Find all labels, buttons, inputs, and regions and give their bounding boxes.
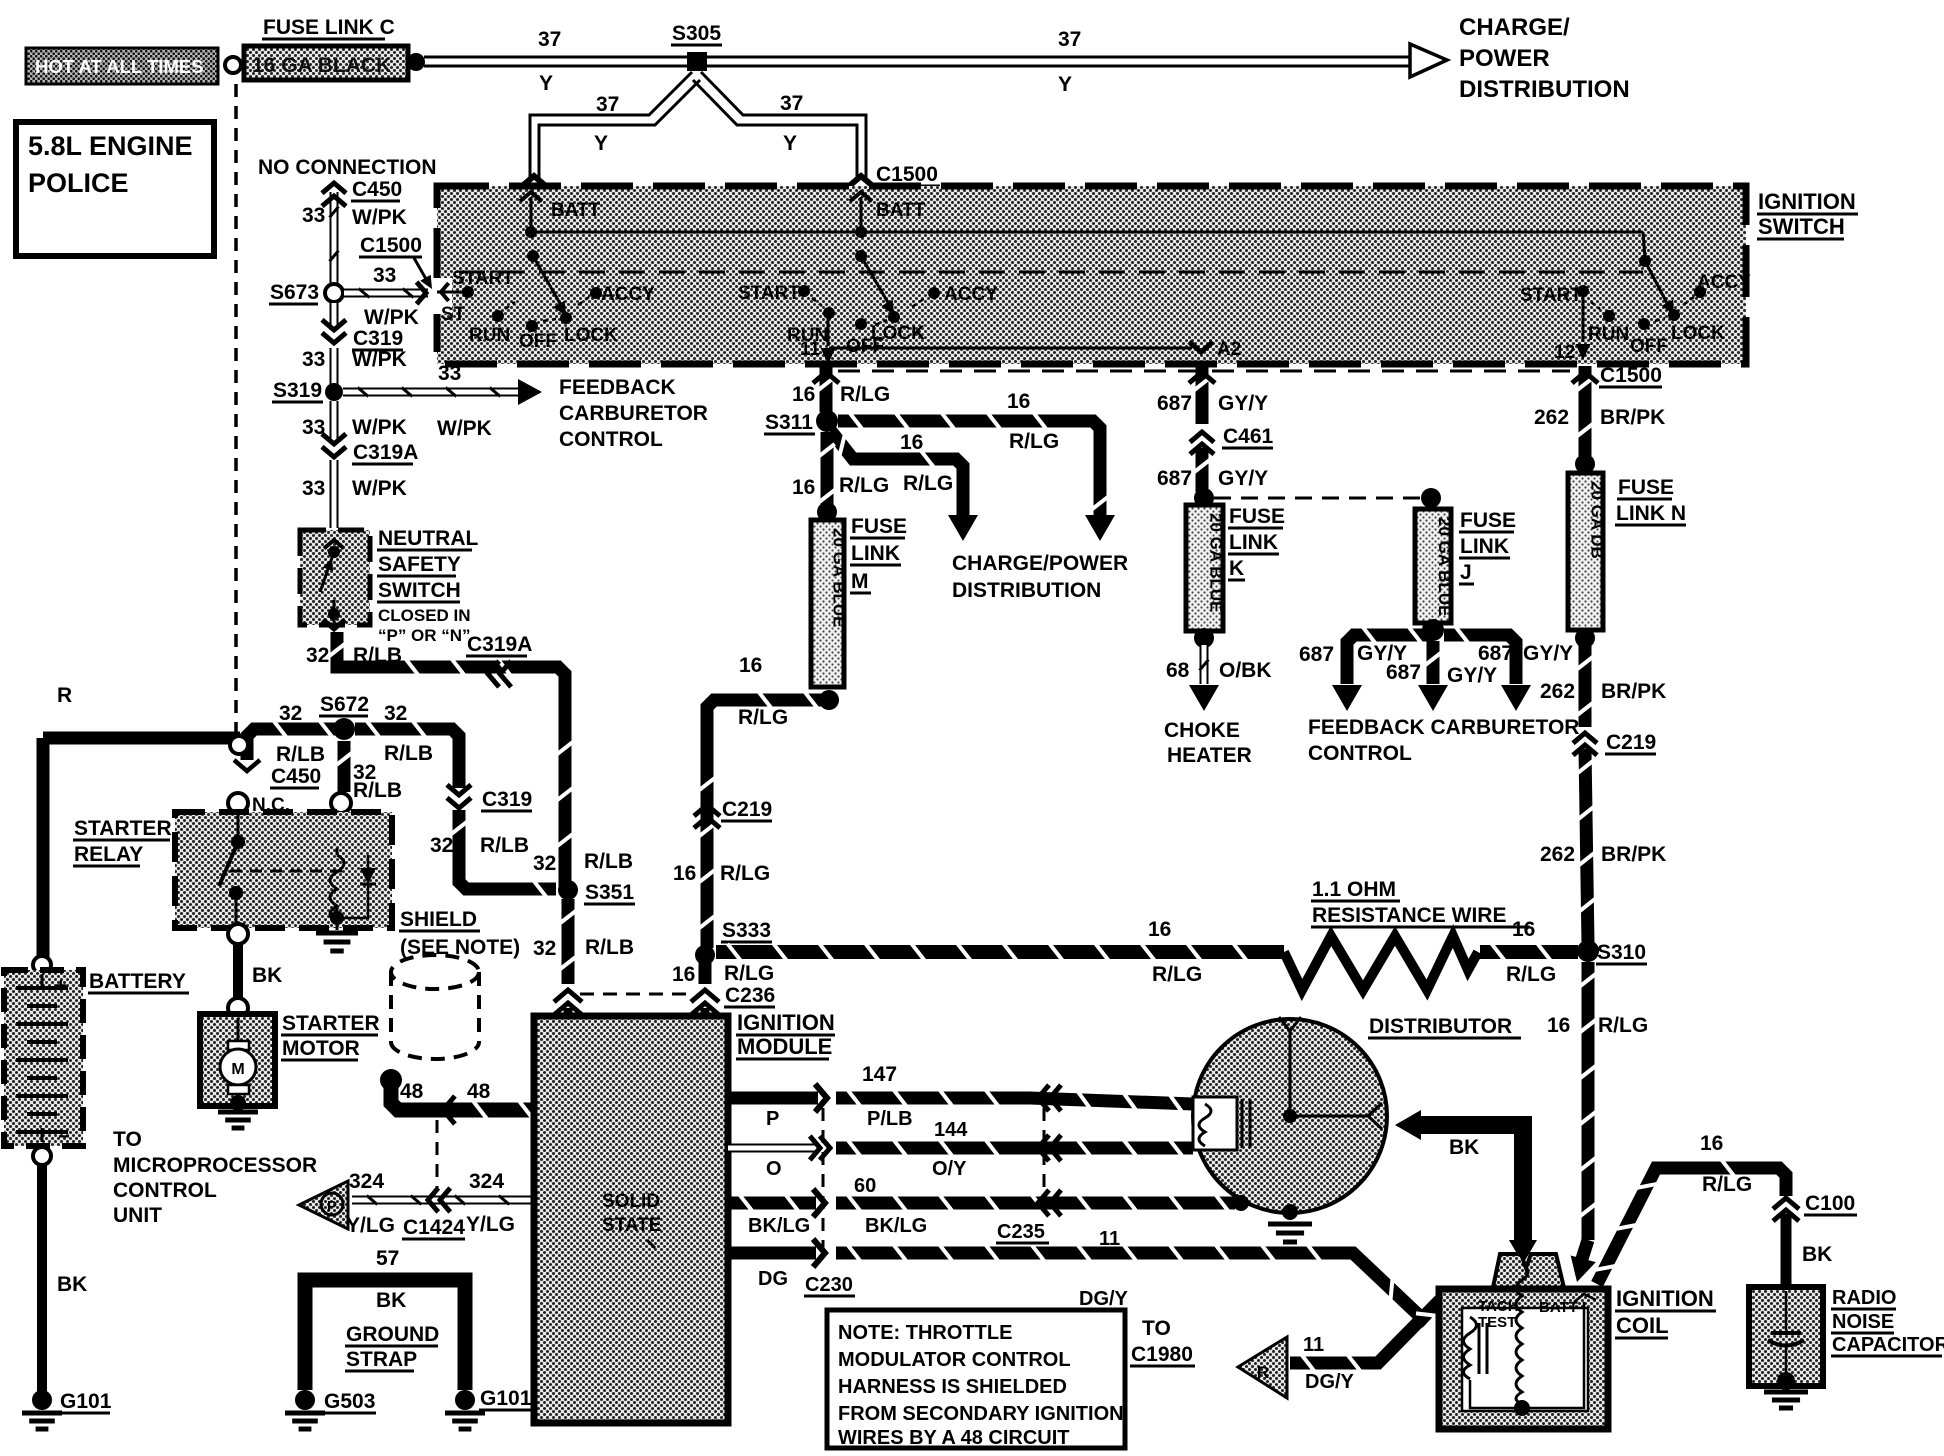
svg-text:12: 12 (1554, 342, 1575, 363)
svg-text:LOCK: LOCK (564, 325, 618, 346)
svg-text:W/PK: W/PK (352, 348, 407, 371)
svg-text:20 GA BLUE: 20 GA BLUE (830, 528, 849, 628)
svg-text:RUN: RUN (469, 325, 510, 346)
svg-text:16: 16 (1512, 918, 1535, 941)
svg-text:RESISTANCE WIRE: RESISTANCE WIRE (1312, 904, 1506, 927)
svg-text:R: R (57, 684, 72, 707)
svg-text:BK: BK (57, 1273, 87, 1296)
svg-text:C219: C219 (1606, 731, 1656, 754)
svg-text:SAFETY: SAFETY (378, 553, 461, 576)
svg-text:SWITCH: SWITCH (1758, 214, 1845, 239)
svg-text:FUSE: FUSE (851, 515, 907, 538)
svg-text:R/LG: R/LG (903, 472, 953, 495)
svg-text:R/LB: R/LB (384, 742, 433, 765)
svg-text:C450: C450 (352, 178, 402, 201)
svg-text:Y: Y (539, 72, 553, 95)
svg-text:GROUND: GROUND (346, 1323, 439, 1346)
svg-text:C461: C461 (1223, 425, 1274, 448)
svg-text:48: 48 (467, 1080, 491, 1103)
svg-text:20 GA DB: 20 GA DB (1588, 481, 1607, 559)
svg-text:P: P (327, 1198, 337, 1215)
svg-text:324: 324 (349, 1170, 384, 1193)
svg-text:GY/Y: GY/Y (1447, 664, 1497, 687)
svg-text:IGNITION: IGNITION (1616, 1286, 1714, 1311)
svg-text:S333: S333 (722, 919, 771, 942)
svg-text:Y: Y (594, 132, 608, 155)
svg-text:S310: S310 (1597, 941, 1646, 964)
svg-text:C1500: C1500 (1600, 364, 1662, 387)
svg-text:C319: C319 (353, 327, 403, 350)
svg-text:MICROPROCESSOR: MICROPROCESSOR (113, 1154, 317, 1177)
svg-text:RADIO: RADIO (1832, 1287, 1896, 1309)
svg-text:FEEDBACK CARBURETOR: FEEDBACK CARBURETOR (1308, 716, 1579, 739)
svg-text:262: 262 (1534, 406, 1569, 429)
svg-text:687: 687 (1299, 643, 1334, 666)
svg-text:W/PK: W/PK (352, 477, 407, 500)
svg-text:DISTRIBUTOR: DISTRIBUTOR (1369, 1015, 1512, 1038)
svg-text:BATT: BATT (551, 200, 601, 221)
svg-text:W/PK: W/PK (437, 417, 492, 440)
svg-text:1.1 OHM: 1.1 OHM (1312, 878, 1396, 901)
svg-text:DG/Y: DG/Y (1079, 1288, 1129, 1310)
svg-text:OFF: OFF (1630, 336, 1668, 357)
svg-text:68: 68 (1166, 659, 1190, 682)
svg-text:324: 324 (469, 1170, 504, 1193)
svg-text:FEEDBACK: FEEDBACK (559, 376, 676, 399)
svg-text:LINK: LINK (1460, 535, 1509, 558)
svg-text:FUSE: FUSE (1229, 505, 1285, 528)
svg-text:−: − (58, 1126, 70, 1148)
svg-text:144: 144 (934, 1119, 968, 1141)
svg-text:G101: G101 (60, 1390, 112, 1413)
svg-text:P: P (766, 1108, 779, 1130)
svg-text:START: START (452, 268, 514, 289)
svg-text:R/LB: R/LB (353, 644, 402, 667)
svg-text:CHARGE/POWER: CHARGE/POWER (952, 552, 1128, 575)
svg-text:HOT AT ALL TIMES: HOT AT ALL TIMES (35, 56, 204, 77)
svg-text:262: 262 (1540, 680, 1575, 703)
svg-text:CAPACITOR: CAPACITOR (1832, 1334, 1944, 1356)
svg-text:BK: BK (1802, 1243, 1832, 1266)
svg-text:BK: BK (1449, 1136, 1479, 1159)
svg-text:ST: ST (441, 304, 466, 325)
svg-text:O/Y: O/Y (932, 1158, 967, 1180)
svg-text:TO: TO (1142, 1317, 1171, 1340)
svg-text:G503: G503 (324, 1390, 375, 1413)
svg-text:S319: S319 (273, 379, 322, 402)
svg-text:C319: C319 (482, 788, 532, 811)
svg-text:BATT: BATT (876, 200, 926, 221)
svg-text:TEST: TEST (1478, 1314, 1516, 1331)
svg-text:MODULE: MODULE (737, 1034, 832, 1059)
svg-text:SOLID: SOLID (602, 1191, 660, 1212)
svg-text:BK/LG: BK/LG (865, 1215, 927, 1237)
svg-text:33: 33 (438, 362, 461, 385)
svg-text:GY/Y: GY/Y (1523, 642, 1573, 665)
svg-text:R/LG: R/LG (1598, 1014, 1648, 1037)
svg-text:M: M (231, 1061, 244, 1078)
svg-text:IGNITION: IGNITION (1758, 189, 1856, 214)
svg-text:33: 33 (302, 348, 325, 371)
svg-text:R/LB: R/LB (276, 743, 325, 766)
svg-text:BATT: BATT (1539, 1299, 1578, 1316)
svg-text:BR/PK: BR/PK (1600, 406, 1665, 429)
svg-text:IGNITION: IGNITION (737, 1010, 835, 1035)
svg-text:33: 33 (373, 264, 396, 287)
svg-text:16: 16 (1007, 390, 1030, 413)
svg-text:32: 32 (533, 852, 556, 875)
svg-text:S351: S351 (585, 881, 634, 904)
svg-text:S672: S672 (320, 693, 369, 716)
svg-text:262: 262 (1540, 843, 1575, 866)
svg-text:32: 32 (279, 702, 302, 725)
svg-text:11: 11 (1099, 1228, 1120, 1250)
svg-text:16: 16 (673, 862, 696, 885)
svg-text:ACCY: ACCY (601, 284, 655, 305)
svg-text:33: 33 (302, 477, 325, 500)
svg-text:J: J (1460, 561, 1472, 584)
svg-text:A2: A2 (1217, 339, 1241, 360)
svg-text:RELAY: RELAY (74, 843, 143, 866)
svg-text:32: 32 (430, 834, 453, 857)
svg-text:K: K (1229, 557, 1244, 580)
svg-text:16: 16 (900, 431, 923, 454)
svg-text:20 GA BLUE: 20 GA BLUE (1435, 517, 1454, 617)
svg-text:GY/Y: GY/Y (1218, 392, 1268, 415)
svg-text:11: 11 (800, 339, 821, 360)
svg-text:37: 37 (1058, 28, 1081, 51)
svg-text:R/LG: R/LG (738, 706, 788, 729)
svg-text:16: 16 (739, 654, 762, 677)
svg-text:POWER: POWER (1459, 45, 1550, 72)
svg-text:FUSE: FUSE (1460, 509, 1516, 532)
svg-text:R/LG: R/LG (1702, 1173, 1752, 1196)
svg-text:LINK: LINK (1229, 531, 1278, 554)
svg-text:(SEE NOTE): (SEE NOTE) (400, 936, 520, 959)
svg-text:NEUTRAL: NEUTRAL (378, 527, 478, 550)
svg-text:DISTRIBUTION: DISTRIBUTION (952, 579, 1101, 602)
svg-text:11: 11 (1303, 1334, 1324, 1356)
svg-text:O/BK: O/BK (1219, 659, 1272, 682)
svg-text:TO: TO (113, 1128, 142, 1151)
svg-text:SHIELD: SHIELD (400, 908, 477, 931)
svg-text:16: 16 (792, 476, 815, 499)
svg-text:32: 32 (533, 937, 556, 960)
svg-text:LINK N: LINK N (1616, 502, 1686, 525)
svg-text:60: 60 (854, 1175, 876, 1197)
svg-text:DG/Y: DG/Y (1305, 1371, 1355, 1393)
svg-text:R/LG: R/LG (724, 962, 774, 985)
svg-text:R/LG: R/LG (1506, 963, 1556, 986)
svg-text:LINK: LINK (851, 542, 900, 565)
svg-text:687: 687 (1386, 661, 1421, 684)
svg-text:Y/LG: Y/LG (346, 1214, 395, 1237)
svg-text:TACH: TACH (1478, 1298, 1519, 1315)
svg-text:MODULATOR CONTROL: MODULATOR CONTROL (838, 1349, 1071, 1371)
svg-text:32: 32 (384, 702, 407, 725)
svg-text:C1500: C1500 (360, 234, 422, 257)
svg-text:5.8L ENGINE: 5.8L ENGINE (28, 131, 193, 161)
svg-text:BK: BK (376, 1289, 406, 1312)
svg-text:37: 37 (538, 28, 561, 51)
svg-text:MOTOR: MOTOR (282, 1037, 360, 1060)
svg-text:Y/LG: Y/LG (466, 1213, 515, 1236)
svg-text:BATTERY: BATTERY (89, 970, 186, 993)
svg-text:CONTROL: CONTROL (1308, 742, 1412, 765)
svg-text:BR/PK: BR/PK (1601, 843, 1666, 866)
svg-text:WIRES BY A 48 CIRCUIT: WIRES BY A 48 CIRCUIT (838, 1427, 1070, 1449)
svg-text:R/LG: R/LG (839, 474, 889, 497)
svg-text:GY/Y: GY/Y (1218, 467, 1268, 490)
svg-text:HARNESS IS SHIELDED: HARNESS IS SHIELDED (838, 1376, 1067, 1398)
svg-text:CARBURETOR: CARBURETOR (559, 402, 708, 425)
svg-text:G101: G101 (480, 1387, 532, 1410)
svg-text:16: 16 (1148, 918, 1171, 941)
svg-text:SWITCH: SWITCH (378, 579, 461, 602)
svg-text:BR/PK: BR/PK (1601, 680, 1666, 703)
svg-text:R/LG: R/LG (1152, 963, 1202, 986)
svg-text:POLICE: POLICE (28, 168, 129, 198)
svg-text:57: 57 (376, 1247, 399, 1270)
svg-text:P/LB: P/LB (867, 1108, 913, 1130)
svg-text:37: 37 (780, 92, 803, 115)
svg-text:LOCK: LOCK (1671, 323, 1725, 344)
svg-text:NO CONNECTION: NO CONNECTION (258, 156, 437, 179)
svg-text:C236: C236 (725, 984, 775, 1007)
svg-text:S311: S311 (765, 411, 813, 434)
svg-text:Y: Y (1058, 73, 1072, 96)
svg-text:R/LB: R/LB (353, 779, 402, 802)
svg-text:C100: C100 (1805, 1192, 1855, 1215)
svg-text:R/LB: R/LB (480, 834, 529, 857)
svg-text:16: 16 (1547, 1014, 1570, 1037)
svg-text:C1424: C1424 (403, 1216, 465, 1239)
svg-text:C1980: C1980 (1131, 1343, 1193, 1366)
svg-text:COIL: COIL (1616, 1313, 1669, 1338)
svg-text:ACCY: ACCY (944, 284, 998, 305)
svg-text:O: O (766, 1158, 782, 1180)
svg-text:CHOKE: CHOKE (1164, 719, 1240, 742)
svg-text:48: 48 (400, 1080, 424, 1103)
svg-text:“P” OR “N”: “P” OR “N” (378, 626, 471, 645)
svg-text:BK/LG: BK/LG (748, 1215, 810, 1237)
svg-text:NOTE: THROTTLE: NOTE: THROTTLE (838, 1322, 1012, 1344)
svg-text:HEATER: HEATER (1167, 744, 1252, 767)
svg-text:C219: C219 (722, 798, 772, 821)
svg-text:STATE: STATE (602, 1215, 661, 1236)
svg-text:RUN: RUN (1588, 324, 1629, 345)
svg-text:FROM SECONDARY IGNITION: FROM SECONDARY IGNITION (838, 1403, 1124, 1425)
svg-text:R/LB: R/LB (585, 936, 634, 959)
svg-text:147: 147 (862, 1063, 897, 1086)
svg-text:STRAP: STRAP (346, 1348, 417, 1371)
svg-text:S673: S673 (270, 281, 319, 304)
svg-text:687: 687 (1478, 642, 1513, 665)
svg-text:C230: C230 (805, 1274, 853, 1296)
svg-text:33: 33 (302, 204, 325, 227)
svg-text:687: 687 (1157, 392, 1192, 415)
svg-text:687: 687 (1157, 467, 1192, 490)
svg-text:R/LG: R/LG (720, 862, 770, 885)
svg-text:CONTROL: CONTROL (113, 1179, 217, 1202)
svg-text:STARTER: STARTER (282, 1012, 380, 1035)
svg-text:C319A: C319A (467, 633, 532, 656)
svg-text:W/PK: W/PK (352, 206, 407, 229)
svg-text:C319A: C319A (353, 441, 418, 464)
svg-text:W/PK: W/PK (352, 416, 407, 439)
svg-text:16: 16 (1700, 1132, 1723, 1155)
svg-text:M: M (851, 570, 869, 593)
svg-text:OFF: OFF (519, 331, 557, 352)
svg-text:R: R (1257, 1363, 1269, 1382)
svg-text:Y: Y (783, 132, 797, 155)
svg-text:R/LG: R/LG (1009, 430, 1059, 453)
svg-text:START: START (738, 283, 800, 304)
svg-text:16 GA BLACK: 16 GA BLACK (252, 54, 391, 77)
svg-text:LOCK: LOCK (871, 323, 925, 344)
svg-text:C235: C235 (997, 1221, 1045, 1243)
svg-text:DG: DG (758, 1268, 788, 1290)
svg-text:UNIT: UNIT (113, 1204, 162, 1227)
svg-text:S305: S305 (672, 22, 721, 45)
svg-text:CHARGE/: CHARGE/ (1459, 14, 1570, 41)
svg-text:NOISE: NOISE (1832, 1311, 1894, 1333)
svg-text:37: 37 (596, 93, 619, 116)
svg-text:W/PK: W/PK (364, 306, 419, 329)
svg-text:32: 32 (306, 644, 329, 667)
svg-text:R/LG: R/LG (840, 383, 890, 406)
svg-text:R/LB: R/LB (584, 850, 633, 873)
svg-text:16: 16 (792, 383, 815, 406)
svg-text:C450: C450 (271, 765, 321, 788)
svg-text:CONTROL: CONTROL (559, 428, 663, 451)
svg-text:DISTRIBUTION: DISTRIBUTION (1459, 76, 1630, 103)
svg-text:CLOSED IN: CLOSED IN (378, 606, 471, 625)
svg-text:STARTER: STARTER (74, 817, 172, 840)
svg-text:BK: BK (252, 964, 282, 987)
svg-text:FUSE LINK C: FUSE LINK C (263, 16, 395, 39)
svg-text:20 GA BLUE: 20 GA BLUE (1207, 513, 1226, 613)
svg-text:FUSE: FUSE (1618, 476, 1674, 499)
svg-text:16: 16 (672, 963, 695, 986)
svg-text:START: START (1520, 285, 1582, 306)
